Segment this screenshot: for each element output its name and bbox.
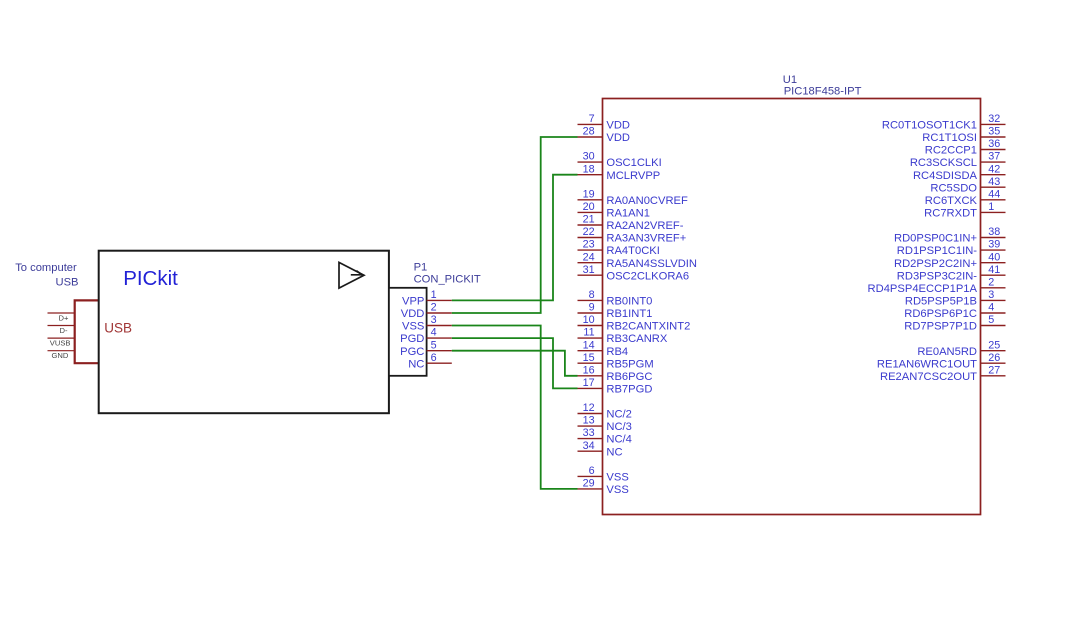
svg-text:USB: USB [104, 321, 132, 336]
U1 pin 25 stub [981, 350, 1006, 352]
svg-text:2: 2 [988, 276, 994, 288]
U1 pin 30 stub [578, 161, 603, 163]
svg-text:21: 21 [583, 214, 595, 226]
svg-text:4: 4 [988, 302, 994, 314]
svg-text:10: 10 [583, 314, 595, 326]
U1 pin 4 stub [981, 312, 1006, 314]
node label "To computer USB" [15, 262, 78, 288]
svg-text:VUSB: VUSB [50, 338, 71, 347]
U1 pin 40 stub [981, 262, 1006, 264]
P1 pin 4 stub [427, 337, 452, 339]
svg-text:PGD: PGD [400, 333, 424, 345]
PICkit arrow/buffer icon [339, 262, 364, 288]
usb pin D- wire [48, 325, 75, 327]
svg-text:NC/3: NC/3 [606, 421, 632, 433]
U1 pin 7 stub [578, 123, 603, 125]
svg-text:RB0INT0: RB0INT0 [606, 296, 652, 308]
svg-text:GND: GND [52, 351, 69, 360]
svg-text:NC: NC [408, 358, 424, 370]
U1 pin 39 stub [981, 249, 1006, 251]
svg-text:RB4: RB4 [606, 346, 628, 358]
svg-text:44: 44 [988, 188, 1000, 200]
svg-text:RA1AN1: RA1AN1 [606, 208, 650, 220]
U1 pin 20 stub [578, 211, 603, 213]
svg-text:RD4PSP4ECCP1P1A: RD4PSP4ECCP1P1A [868, 283, 978, 295]
svg-text:NC/2: NC/2 [606, 409, 632, 421]
P1 pin 1 stub [427, 299, 452, 301]
svg-text:VDD: VDD [606, 132, 630, 144]
svg-text:NC/4: NC/4 [606, 434, 632, 446]
svg-text:RD0PSP0C1IN+: RD0PSP0C1IN+ [894, 233, 977, 245]
svg-text:VPP: VPP [402, 296, 424, 308]
U1 pin 23 stub [578, 249, 603, 251]
svg-text:30: 30 [583, 151, 595, 163]
svg-text:22: 22 [583, 226, 595, 238]
svg-text:RD1PSP1C1IN-: RD1PSP1C1IN- [897, 245, 977, 257]
svg-text:42: 42 [988, 163, 1000, 175]
U1 pin 37 stub [981, 161, 1006, 163]
usb pin VUSB wire [48, 337, 75, 339]
USB cable connector bracket [75, 300, 99, 363]
U1 pin 41 stub [981, 274, 1006, 276]
U1 pin 22 stub [578, 237, 603, 239]
U1 pin 33 stub [578, 438, 603, 440]
svg-text:32: 32 [988, 113, 1000, 125]
svg-text:RE0AN5RD: RE0AN5RD [917, 346, 977, 358]
svg-text:43: 43 [988, 176, 1000, 188]
U1 pin 1 stub [981, 211, 1006, 213]
svg-text:RA4T0CKI: RA4T0CKI [606, 245, 659, 257]
svg-text:PICkit: PICkit [123, 267, 178, 290]
svg-text:19: 19 [583, 188, 595, 200]
svg-text:6: 6 [589, 465, 595, 477]
svg-text:26: 26 [988, 352, 1000, 364]
svg-text:RC3SCKSCL: RC3SCKSCL [910, 157, 977, 169]
svg-text:14: 14 [583, 339, 595, 351]
U1 pin 3 stub [981, 299, 1006, 301]
U1 pin 17 stub [578, 387, 603, 389]
P1 pin 5 stub [427, 350, 452, 352]
wire PGD -> RB7PGD [452, 338, 578, 388]
U1 pin 9 stub [578, 312, 603, 314]
U1 pin 16 stub [578, 375, 603, 377]
U1 pin 34 stub [578, 450, 603, 452]
svg-text:RD7PSP7P1D: RD7PSP7P1D [904, 321, 977, 333]
svg-text:8: 8 [589, 289, 595, 301]
svg-text:RC6TXCK: RC6TXCK [925, 195, 978, 207]
svg-text:9: 9 [589, 302, 595, 314]
svg-text:RB7PGD: RB7PGD [606, 384, 652, 396]
svg-text:VSS: VSS [606, 484, 628, 496]
svg-text:40: 40 [988, 251, 1000, 263]
svg-text:17: 17 [583, 377, 595, 389]
P1 pin 2 stub [427, 312, 452, 314]
svg-text:35: 35 [988, 126, 1000, 138]
U1 pin 28 stub [578, 136, 603, 138]
svg-text:39: 39 [988, 239, 1000, 251]
usb pin D+ wire [48, 312, 75, 314]
svg-text:CON_PICKIT: CON_PICKIT [414, 273, 481, 285]
U1 pin 13 stub [578, 425, 603, 427]
svg-text:36: 36 [988, 138, 1000, 150]
svg-text:23: 23 [583, 239, 595, 251]
svg-text:1: 1 [431, 289, 437, 301]
U1 pin 38 stub [981, 237, 1006, 239]
svg-text:OSC2CLKORA6: OSC2CLKORA6 [606, 270, 689, 282]
svg-text:PGC: PGC [400, 346, 424, 358]
svg-text:NC: NC [606, 446, 622, 458]
U1 pin 44 stub [981, 199, 1006, 201]
U1 pin 8 stub [578, 299, 603, 301]
svg-text:37: 37 [988, 151, 1000, 163]
svg-text:33: 33 [583, 427, 595, 439]
svg-text:RA2AN2VREF-: RA2AN2VREF- [606, 220, 683, 232]
svg-text:PIC18F458-IPT: PIC18F458-IPT [784, 86, 862, 98]
svg-text:D-: D- [59, 326, 67, 335]
wire VPP -> MCLRVPP [452, 175, 578, 301]
U1 pin 29 stub [578, 488, 603, 490]
svg-text:RC2CCP1: RC2CCP1 [925, 145, 977, 157]
wire VDD -> VDD pin 28 [452, 137, 578, 313]
U1 pin 10 stub [578, 325, 603, 327]
svg-text:4: 4 [431, 327, 437, 339]
svg-text:6: 6 [431, 352, 437, 364]
svg-text:11: 11 [583, 327, 594, 339]
svg-text:P1: P1 [414, 262, 428, 274]
svg-text:RE1AN6WRC1OUT: RE1AN6WRC1OUT [877, 358, 977, 370]
svg-text:RA0AN0CVREF: RA0AN0CVREF [606, 195, 688, 207]
P1 pin 3 stub [427, 325, 452, 327]
U1 pin 24 stub [578, 262, 603, 264]
svg-text:15: 15 [583, 352, 595, 364]
svg-text:RB3CANRX: RB3CANRX [606, 333, 667, 345]
svg-text:RA3AN3VREF+: RA3AN3VREF+ [606, 233, 686, 245]
svg-text:5: 5 [988, 314, 994, 326]
svg-text:RE2AN7CSC2OUT: RE2AN7CSC2OUT [880, 371, 977, 383]
svg-text:3: 3 [988, 289, 994, 301]
svg-text:VSS: VSS [402, 321, 424, 333]
svg-text:RB6PGC: RB6PGC [606, 371, 652, 383]
svg-text:28: 28 [583, 126, 595, 138]
svg-text:RA5AN4SSLVDIN: RA5AN4SSLVDIN [606, 258, 697, 270]
U1 pin 42 stub [981, 174, 1006, 176]
svg-text:RD5PSP5P1B: RD5PSP5P1B [905, 296, 977, 308]
svg-text:1: 1 [988, 201, 994, 213]
IC U1 body [603, 99, 981, 515]
U1 pin 36 stub [981, 149, 1006, 151]
svg-text:25: 25 [988, 339, 1000, 351]
connector P1 body [389, 288, 427, 376]
U1 pin 31 stub [578, 274, 603, 276]
svg-text:U1: U1 [783, 74, 797, 86]
U1 pin 32 stub [981, 123, 1006, 125]
P1 pin 6 stub [427, 362, 452, 364]
svg-text:RB2CANTXINT2: RB2CANTXINT2 [606, 321, 690, 333]
svg-text:12: 12 [583, 402, 595, 414]
svg-text:RC0T1OSOT1CK1: RC0T1OSOT1CK1 [882, 120, 977, 132]
svg-text:RD2PSP2C2IN+: RD2PSP2C2IN+ [894, 258, 977, 270]
svg-text:RC7RXDT: RC7RXDT [924, 208, 977, 220]
U1 pin 18 stub [578, 174, 603, 176]
svg-text:RC5SDO: RC5SDO [930, 182, 977, 194]
U1 pin 5 stub [981, 325, 1006, 327]
svg-text:2: 2 [431, 302, 437, 314]
U1 pin 27 stub [981, 375, 1006, 377]
U1 pin 35 stub [981, 136, 1006, 138]
U1 pin 6 stub [578, 475, 603, 477]
wire VSS -> VSS pin 29 [452, 326, 578, 489]
svg-text:41: 41 [988, 264, 1000, 276]
svg-text:To computer: To computer [15, 262, 77, 274]
svg-text:20: 20 [583, 201, 595, 213]
svg-text:38: 38 [988, 226, 1000, 238]
svg-text:USB: USB [55, 276, 78, 288]
svg-text:3: 3 [431, 314, 437, 326]
U1 pin 2 stub [981, 287, 1006, 289]
svg-text:VDD: VDD [401, 308, 425, 320]
svg-text:18: 18 [583, 163, 595, 175]
svg-text:34: 34 [583, 440, 595, 452]
svg-text:MCLRVPP: MCLRVPP [606, 170, 660, 182]
svg-text:RB5PGM: RB5PGM [606, 358, 653, 370]
U1 pin 43 stub [981, 186, 1006, 188]
svg-text:RC1T1OSI: RC1T1OSI [922, 132, 977, 144]
svg-text:RC4SDISDA: RC4SDISDA [913, 170, 978, 182]
wire PGC -> RB6PGC [452, 351, 578, 376]
usb pin GND wire [48, 350, 75, 352]
PICkit programmer module body [99, 251, 389, 414]
svg-text:OSC1CLKI: OSC1CLKI [606, 157, 661, 169]
U1 pin 26 stub [981, 362, 1006, 364]
U1 pin 21 stub [578, 224, 603, 226]
svg-text:27: 27 [988, 364, 1000, 376]
svg-text:VSS: VSS [606, 472, 628, 484]
svg-text:5: 5 [431, 339, 437, 351]
svg-text:13: 13 [583, 415, 595, 427]
svg-text:7: 7 [589, 113, 595, 125]
svg-text:RD3PSP3C2IN-: RD3PSP3C2IN- [897, 270, 977, 282]
svg-text:VDD: VDD [606, 120, 630, 132]
U1 pin 12 stub [578, 413, 603, 415]
U1 pin 11 stub [578, 337, 603, 339]
svg-text:31: 31 [583, 264, 595, 276]
svg-text:RD6PSP6P1C: RD6PSP6P1C [904, 308, 977, 320]
U1 pin 15 stub [578, 362, 603, 364]
U1 pin 14 stub [578, 350, 603, 352]
svg-text:D+: D+ [59, 313, 69, 322]
U1 pin 19 stub [578, 199, 603, 201]
svg-text:16: 16 [583, 364, 595, 376]
svg-text:29: 29 [583, 478, 595, 490]
svg-text:RB1INT1: RB1INT1 [606, 308, 652, 320]
svg-text:24: 24 [583, 251, 595, 263]
